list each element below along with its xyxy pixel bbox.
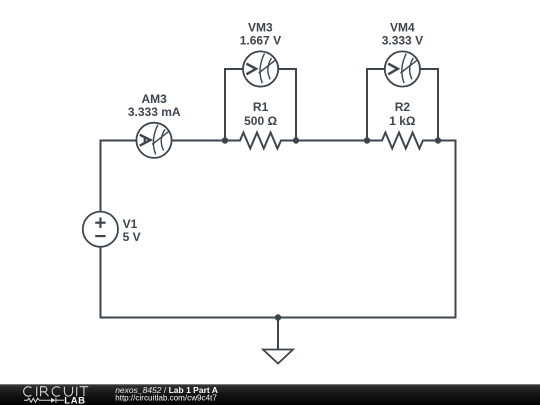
svg-text:R1: R1	[253, 100, 269, 114]
svg-text:R2: R2	[395, 100, 411, 114]
svg-text:VM4: VM4	[390, 20, 415, 34]
svg-text:V1: V1	[123, 217, 138, 231]
svg-text:1 kΩ: 1 kΩ	[389, 114, 416, 128]
svg-text:LAB: LAB	[64, 396, 85, 405]
svg-text:5 V: 5 V	[123, 230, 141, 244]
svg-text:VM3: VM3	[248, 20, 273, 34]
svg-text:3.333 V: 3.333 V	[382, 34, 423, 48]
svg-text:3.333 mA: 3.333 mA	[128, 105, 181, 119]
svg-text:http://circuitlab.com/cw9c4t7: http://circuitlab.com/cw9c4t7	[115, 394, 217, 403]
svg-text:500 Ω: 500 Ω	[244, 114, 277, 128]
svg-text:1.667 V: 1.667 V	[240, 34, 281, 48]
